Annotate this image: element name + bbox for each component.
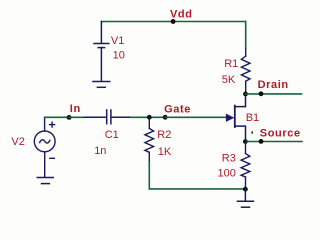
node Source bbox=[259, 139, 264, 144]
svg-text:C1: C1 bbox=[105, 129, 119, 141]
wire top rail drop to R1 bbox=[245, 22, 247, 49]
svg-text:In: In bbox=[70, 103, 81, 115]
stray grid dot bbox=[252, 131, 253, 134]
node In bbox=[67, 115, 72, 120]
node junction R2 top bbox=[147, 115, 152, 120]
resistor R1 bbox=[241, 49, 250, 94]
svg-text:B1: B1 bbox=[246, 112, 259, 124]
wire drain stub to right edge bbox=[246, 93, 302, 95]
svg-text:R1: R1 bbox=[224, 58, 238, 70]
ground of R3 bbox=[238, 189, 254, 207]
transistor B1 (N-JFET: channel bar, gate arrow, drain and source leads) bbox=[234, 106, 236, 127]
ground of V2 bbox=[37, 178, 53, 184]
capacitor C1 bbox=[85, 110, 132, 124]
ground of V1 bbox=[93, 82, 110, 88]
svg-text:1n: 1n bbox=[94, 145, 106, 157]
wire top rail (V1 plus to R1 top) bbox=[101, 21, 245, 23]
resistor R3 bbox=[241, 142, 250, 190]
voltage source V2 bbox=[34, 117, 55, 177]
svg-text:Drain: Drain bbox=[258, 79, 289, 91]
wire Gate to B1 gate bbox=[165, 116, 226, 118]
wire V2 top to node In bbox=[45, 116, 70, 118]
wire In to C1 left lead bbox=[69, 116, 84, 118]
svg-text:1K: 1K bbox=[158, 146, 172, 158]
node junction source / R3 top bbox=[243, 139, 248, 144]
node Drain bbox=[259, 91, 264, 96]
svg-text:V1: V1 bbox=[111, 35, 124, 47]
node Gate bbox=[163, 115, 168, 120]
node junction R3 bottom bbox=[243, 187, 248, 192]
svg-text:10: 10 bbox=[113, 50, 125, 62]
wire C1 right lead to node Gate bbox=[131, 116, 165, 118]
wire R2 bottom to R3 bottom node bbox=[149, 163, 245, 189]
svg-text:R2: R2 bbox=[157, 129, 171, 141]
svg-text:V2: V2 bbox=[11, 136, 24, 148]
svg-text:Source: Source bbox=[260, 128, 301, 140]
svg-text:Vdd: Vdd bbox=[170, 8, 193, 20]
wire source stub to right edge bbox=[245, 141, 302, 143]
battery V1 bbox=[94, 22, 109, 82]
node Vdd bbox=[171, 19, 176, 24]
svg-text:5K: 5K bbox=[222, 74, 236, 86]
resistor R2 bbox=[145, 117, 154, 162]
node junction R1 bottom / drain bbox=[243, 92, 248, 97]
svg-text:100: 100 bbox=[218, 167, 236, 179]
svg-text:R3: R3 bbox=[222, 152, 236, 164]
svg-text:Gate: Gate bbox=[164, 104, 191, 116]
